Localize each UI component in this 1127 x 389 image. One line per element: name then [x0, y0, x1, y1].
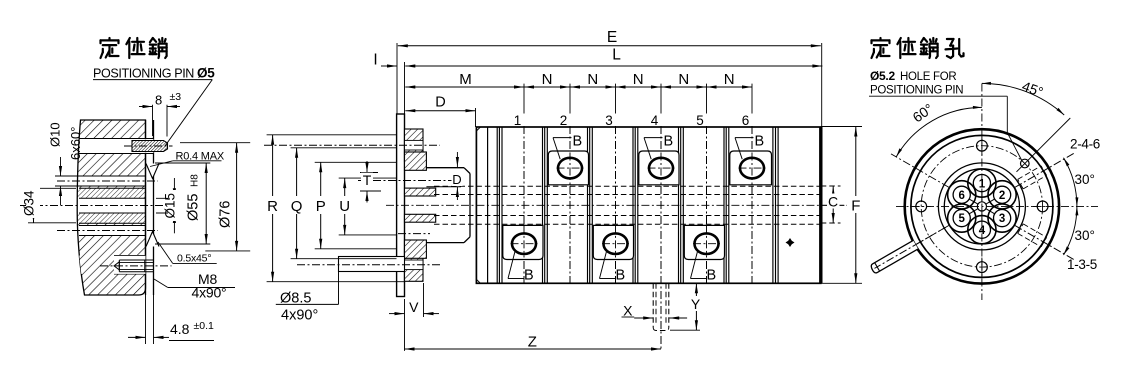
svg-text:±0.1: ±0.1: [194, 320, 215, 332]
svg-text:Y: Y: [691, 296, 701, 312]
svg-text:3: 3: [605, 113, 613, 128]
svg-text:Ø34: Ø34: [22, 190, 37, 216]
svg-text:R: R: [267, 198, 278, 215]
svg-text:N: N: [587, 71, 598, 88]
svg-text:H8: H8: [190, 174, 201, 187]
svg-text:1: 1: [514, 113, 522, 128]
svg-text:Ø5.2: Ø5.2: [870, 69, 895, 83]
svg-text:30°: 30°: [1075, 172, 1095, 187]
svg-text:6: 6: [958, 190, 964, 202]
svg-text:T: T: [363, 172, 372, 188]
svg-text:B: B: [755, 133, 765, 149]
svg-text:2: 2: [560, 113, 568, 128]
svg-text:M: M: [459, 71, 472, 88]
svg-text:Q: Q: [291, 198, 303, 215]
svg-text:N: N: [678, 71, 689, 88]
svg-text:30°: 30°: [1075, 228, 1095, 243]
svg-text:B: B: [573, 133, 583, 149]
svg-text:4x90°: 4x90°: [192, 285, 227, 301]
svg-text:4: 4: [651, 113, 659, 128]
svg-text:POSITIONING PIN: POSITIONING PIN: [93, 66, 194, 81]
svg-text:Ø15: Ø15: [163, 193, 178, 219]
svg-text:V: V: [409, 299, 419, 315]
svg-text:C: C: [828, 194, 838, 210]
svg-text:5: 5: [696, 113, 704, 128]
svg-text:Z: Z: [528, 334, 537, 351]
svg-text:E: E: [607, 29, 617, 46]
svg-text:±3: ±3: [170, 91, 182, 103]
svg-text:I: I: [373, 52, 377, 69]
svg-text:6: 6: [742, 113, 750, 128]
svg-text:Ø10: Ø10: [48, 122, 63, 147]
svg-text:5: 5: [958, 213, 965, 225]
svg-text:Ø55: Ø55: [186, 194, 202, 221]
svg-text:POSITIONING PIN: POSITIONING PIN: [870, 84, 963, 96]
svg-text:2-4-6: 2-4-6: [1070, 136, 1100, 151]
svg-text:B: B: [707, 267, 717, 283]
svg-text:4x90°: 4x90°: [281, 307, 318, 323]
svg-text:3: 3: [999, 213, 1005, 225]
svg-text:L: L: [612, 47, 621, 64]
svg-text:B: B: [524, 267, 534, 283]
svg-text:U: U: [339, 198, 350, 215]
svg-text:0.5x45°: 0.5x45°: [177, 253, 211, 265]
svg-text:4: 4: [979, 225, 986, 237]
svg-text:N: N: [542, 71, 553, 88]
svg-text:4.8: 4.8: [170, 321, 190, 337]
svg-text:8: 8: [155, 93, 162, 108]
svg-text:X: X: [623, 302, 633, 318]
svg-text:HOLE FOR: HOLE FOR: [900, 71, 956, 83]
svg-text:2: 2: [999, 190, 1005, 202]
svg-text:F: F: [851, 198, 860, 215]
svg-text:1-3-5: 1-3-5: [1067, 257, 1097, 272]
svg-text:Ø76: Ø76: [218, 201, 234, 228]
svg-text:6x60°: 6x60°: [68, 127, 83, 160]
svg-text:Ø5: Ø5: [197, 66, 215, 81]
svg-text:N: N: [633, 71, 644, 88]
svg-text:D: D: [452, 172, 461, 187]
svg-text:N: N: [724, 71, 735, 88]
svg-text:1: 1: [979, 178, 986, 190]
svg-text:B: B: [616, 267, 626, 283]
svg-text:D: D: [435, 95, 445, 111]
svg-text:P: P: [316, 198, 326, 215]
svg-text:B: B: [664, 133, 674, 149]
